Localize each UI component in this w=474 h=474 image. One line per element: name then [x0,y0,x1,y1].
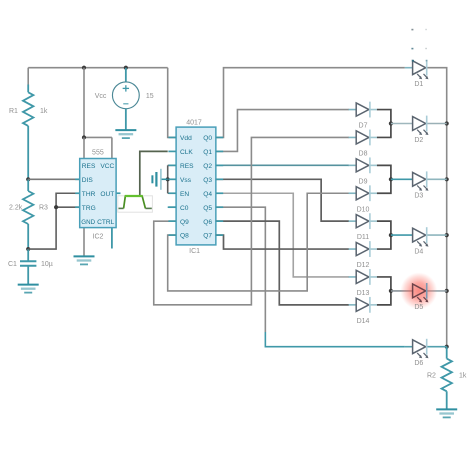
wire ground to Vss [161,178,168,180]
svg-text:D11: D11 [357,234,369,241]
diode D10 [356,185,370,201]
svg-text:GND: GND [81,219,95,226]
LED D6 [413,339,429,358]
wire Vdd feed [168,68,176,138]
svg-text:Q6: Q6 [203,219,212,226]
junction D13-D14 [389,289,393,293]
svg-text:4017: 4017 [186,120,202,127]
grid speck artifacts [411,29,427,62]
wire D4 cathode to rail [427,234,447,236]
svg-text:VCC: VCC [100,163,114,170]
wire Q9 to D8 [154,137,349,304]
resistor R1 [23,92,33,126]
diode D12 [356,241,370,257]
svg-text:Q9: Q9 [180,219,189,226]
wire Q1 to D7 [216,110,349,152]
svg-text:D8: D8 [359,150,368,157]
stub 4017 Vss [168,178,176,180]
svg-text:D1: D1 [414,81,423,88]
wire D3 cathode to rail [427,178,447,180]
wire Q4 to D13 [216,193,349,277]
svg-text:R1: R1 [9,108,18,115]
svg-text:IC1: IC1 [189,248,200,255]
svg-text:THR: THR [82,191,96,198]
junction rail-D2 [445,121,449,125]
diode D8 [356,130,370,146]
junction THR-TRG [54,205,58,209]
wire junction D11-D12 to LED [391,234,413,236]
resistor R3 [23,191,33,224]
LED D5 [413,283,429,302]
svg-text:RES: RES [82,163,96,170]
svg-text:CLK: CLK [180,149,193,156]
voltage source Vcc [112,68,139,130]
wire D2 cathode to rail [427,123,447,125]
junction rail-source [124,66,128,70]
diode D7 [356,102,370,118]
wire R3 to node B [27,224,29,249]
wire Q3 to D11 [216,179,349,221]
stub CTRL pin [111,228,113,249]
svg-text:R3: R3 [39,205,48,212]
junction D7-D8 [389,121,393,125]
svg-text:IC2: IC2 [93,234,104,241]
junction rail-555 [82,66,86,70]
wire R2 to ground [446,391,448,409]
junction rail-D4 [445,233,449,237]
wire Vcc rail top [28,67,168,69]
node B junction R3-C1-TRG [26,247,30,251]
wire cathode link D7-D8 [377,110,391,138]
svg-text:D6: D6 [414,360,423,367]
wire Q8 to D10 [168,193,349,291]
wire into RES pin [83,137,85,158]
LED D4 [413,227,429,246]
svg-text:D10: D10 [357,206,370,213]
svg-text:Vdd: Vdd [180,135,192,142]
wire cathode link D9-D10 [377,165,391,193]
svg-text:Q8: Q8 [180,233,189,240]
svg-text:D4: D4 [414,248,423,255]
wire RES-Vss-EN tie [167,165,169,193]
svg-text:OUT: OUT [100,191,114,198]
ground under C1 [18,285,39,293]
svg-text:Q7: Q7 [203,233,212,240]
wire D5 cathode to rail [427,290,447,292]
lead D6 anode [405,346,413,348]
svg-text:D13: D13 [357,290,370,297]
svg-text:Q5: Q5 [203,205,212,212]
wire LED cathode rail [427,68,447,347]
stub 4017 RES [168,164,176,166]
pin stubs IC1 left [168,137,176,235]
junction 555 RES node [82,135,86,139]
diode leads teal [349,110,378,305]
counter IC1 4017 [176,127,216,245]
svg-text:Q0: Q0 [203,135,212,142]
svg-text:Q1: Q1 [203,149,212,156]
wire Q0 to D1 [216,68,405,138]
svg-text:Vss: Vss [180,177,192,184]
wire cathode link D11-D12 [377,221,391,249]
svg-text:RES: RES [180,163,194,170]
wire junction D7-D8 to LED [391,123,413,125]
lead R1 top [27,85,29,93]
svg-text:C1: C1 [8,261,17,268]
svg-text:D3: D3 [414,193,423,200]
pin stubs IC1 right [216,137,223,235]
svg-text:2.2k: 2.2k [9,205,23,212]
diode D13 [356,269,370,285]
ground sideways at Vss [152,169,161,190]
wire 555 GND down [83,228,85,257]
op-amp timer IC2 555 [80,159,116,228]
svg-text:DIS: DIS [82,177,94,184]
wire Q7 to D12 [216,235,349,249]
wire rail to 555 top [83,68,85,138]
stub 4017 C0 [168,206,176,208]
wire junction D9-D10 to LED [391,178,413,180]
ground under 555 [74,256,95,264]
svg-text:CTRL: CTRL [97,219,115,226]
svg-text:Q4: Q4 [203,191,212,198]
junction D9-D10 [389,177,393,181]
svg-text:555: 555 [92,149,104,156]
LED D2 [413,116,429,135]
svg-text:Q2: Q2 [203,163,212,170]
svg-text:1k: 1k [459,373,467,380]
svg-text:D7: D7 [359,123,368,130]
wire D6 cathode to rail [427,346,447,348]
LED D1 [413,60,429,79]
wire R1 to node A [27,126,29,179]
wire Q5 down [216,207,266,332]
svg-text:10µ: 10µ [41,261,53,268]
LED D3 [413,171,429,190]
pin stubs IC2 [75,179,120,207]
wire RES-VCC link [84,136,112,138]
wire 555 OUT to 4017 CLK [140,151,168,195]
diode D14 [356,297,370,313]
junction D11-D12 [389,233,393,237]
junction rail-D3 [445,177,449,181]
lead D1 anode [405,67,413,69]
wire rail to R1 [27,68,29,85]
svg-text:15: 15 [146,93,154,100]
svg-text:EN: EN [180,191,189,198]
capacitor C1 [20,249,36,285]
svg-text:D5: D5 [414,304,423,311]
svg-text:D2: D2 [414,137,423,144]
wire to D6 anode [265,332,405,347]
wire Q6 to D14 [216,221,349,305]
junction rail-D5 [445,289,449,293]
wire node A to DIS [28,178,79,180]
diode D11 [356,213,370,229]
wire rail to R2 [446,347,448,359]
resistor R2 [442,359,452,392]
wire junction D13-D14 to LED [391,290,413,292]
svg-text:R2: R2 [427,373,436,380]
svg-text:Q3: Q3 [203,177,212,184]
diode D9 [356,157,370,173]
waveform icon square pulse [118,196,153,212]
node A junction R1-R3-DIS [26,177,30,181]
stub 4017 EN [168,192,176,194]
svg-text:Vcc: Vcc [95,93,107,100]
glow of lit LED D5 [400,272,437,309]
svg-text:TRG: TRG [82,205,96,212]
wire node A to R3 [27,179,29,191]
svg-text:1k: 1k [40,108,48,115]
ground under Vcc source [115,130,136,138]
svg-text:D9: D9 [359,178,368,185]
junction rail-D6 [445,345,449,349]
wire Q2 to D9 [216,164,349,166]
svg-text:D12: D12 [357,262,370,269]
svg-text:C0: C0 [180,205,189,212]
svg-text:D14: D14 [357,318,370,325]
wire TRG tap [56,206,80,208]
ground under R2 [436,409,457,417]
wire THR to node B [28,193,79,249]
junction Vss tie [166,177,170,181]
wire into VCC pin [111,137,113,158]
wire cathode link D13-D14 [377,277,391,305]
